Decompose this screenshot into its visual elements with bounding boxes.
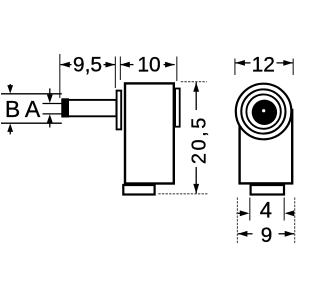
dim B bottom arrow shaft: [9, 131, 11, 134]
dim 20,5 bottom arrowhead: [193, 184, 199, 194]
svg-text:9: 9: [261, 224, 273, 247]
front view ring 3: [246, 94, 280, 128]
dim 12 right arrowhead: [283, 60, 293, 66]
dim 4 left outside line: [237, 212, 241, 214]
dim 9,5 line right segment: [104, 64, 116, 66]
dim 9,5 left extension line: [59, 54, 61, 98]
svg-text:9,5: 9,5: [73, 54, 102, 77]
dim 10 left arrowhead: [120, 62, 130, 68]
dim 10 line right segment: [164, 64, 175, 66]
dim 12 line right segment: [277, 62, 293, 64]
svg-text:4: 4: [260, 198, 272, 223]
dim 9,5 line left segment: [60, 64, 71, 66]
dim B top line: [1, 93, 62, 95]
dim 9,5 right arrowhead: [106, 62, 116, 68]
dim 9 left arrowhead: [238, 231, 248, 237]
dim 9 right extension line: [294, 198, 296, 244]
svg-text:B: B: [5, 96, 20, 122]
dim A top line: [43, 103, 62, 105]
dim 9 line left segment: [238, 233, 253, 235]
side view right tab: [175, 89, 180, 127]
front view ring 2: [241, 89, 285, 133]
side view barrel outline: [62, 100, 116, 116]
dim 20,5 line bottom segment: [195, 167, 197, 193]
front view body: [240, 110, 293, 183]
dim A bottom line: [43, 113, 62, 115]
dim 4 right outside line: [290, 212, 294, 214]
dim 20,5 bottom extension line: [158, 193, 208, 195]
dim A bottom arrow shaft: [49, 122, 51, 128]
dim 9,5 left arrowhead: [60, 62, 70, 68]
dim 10 right extension line: [176, 57, 178, 82]
svg-text:A: A: [25, 96, 41, 122]
dim 20,5 top arrowhead: [193, 82, 199, 92]
dim 12 right extension line: [292, 59, 294, 76]
dim 4 right outside arrowhead: [285, 210, 295, 216]
dim 10 line left segment: [120, 64, 133, 66]
front view bottom foot: [251, 185, 284, 195]
side view body: [125, 83, 174, 183]
dim B top arrowhead: [7, 85, 13, 93]
dim A top arrow shaft: [49, 88, 51, 95]
dim 12 left arrowhead: [235, 60, 245, 66]
dim 9 left extension line: [236, 198, 238, 244]
side view flange: [117, 91, 122, 130]
dim 12 left extension line: [234, 59, 236, 76]
dim 10 right arrowhead: [165, 62, 175, 68]
dim A bottom arrowhead: [47, 114, 53, 122]
svg-text:20,5: 20,5: [189, 115, 211, 164]
side view tip (black contact): [61, 98, 69, 117]
dim 4 right extension line: [283, 198, 285, 221]
dim 9 line right segment: [279, 233, 295, 235]
dim 4 left outside arrowhead: [240, 210, 250, 216]
dim B bottom line: [1, 122, 62, 124]
dim B top arrow shaft: [9, 84, 11, 87]
svg-text:12: 12: [252, 53, 275, 76]
dim 20,5 top extension line: [181, 81, 207, 83]
dim 10 left extension line: [119, 57, 121, 81]
dim 12 line left segment: [235, 62, 250, 64]
dim 4 left extension line: [249, 198, 251, 221]
dim 20,5 line top segment: [195, 82, 197, 110]
dim B bottom arrowhead: [7, 124, 13, 132]
front view outer circle: [236, 84, 292, 140]
dim 9 right arrowhead: [285, 231, 295, 237]
front view center contact (black): [252, 100, 277, 125]
dim A top arrowhead: [47, 95, 53, 103]
front view center highlight dot: [262, 109, 265, 112]
dim 9,5 right extension line: [114, 57, 116, 89]
side view bottom foot: [123, 185, 154, 195]
svg-text:10: 10: [137, 54, 160, 77]
